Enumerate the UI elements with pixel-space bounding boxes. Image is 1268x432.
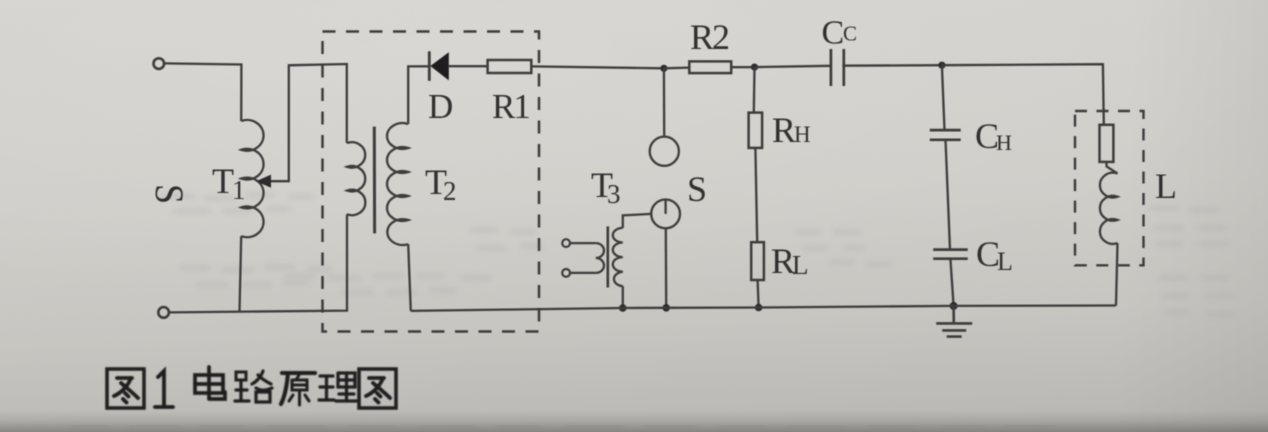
inductor L winding (1100, 173, 1118, 244)
wire: inductor L to bottom rail (1116, 243, 1118, 305)
transformer T2 core (373, 127, 376, 234)
transformer T3 secondary winding (613, 228, 623, 286)
dashed box (exciter unit) (323, 32, 540, 332)
原 (281, 373, 315, 405)
transformer T2 secondary winding (387, 123, 408, 245)
spark gap wire from node A (663, 68, 666, 136)
wire: Cc to node C (842, 64, 942, 67)
capacitor CH plates (930, 129, 961, 132)
wire: RL to bottom rail (758, 280, 759, 308)
bleedthrough row at photo bottom edge (70, 426, 1056, 428)
node A junction (660, 65, 667, 72)
spark gap lower electrode S (651, 200, 680, 229)
arrowhead of T1 tap (256, 175, 271, 188)
路 (235, 371, 272, 402)
node: S branch bottom junction (662, 304, 670, 312)
wire: T1 bottom to bottom rail (240, 236, 242, 311)
wire: resistor to inductor L (1106, 162, 1117, 174)
理 (319, 373, 357, 401)
transformer T3 input terminal 2 (562, 269, 570, 277)
diode D cathode bar (428, 51, 431, 81)
wire: diode to R1 (449, 65, 488, 67)
wire: T3 terminal 1 to primary (570, 242, 596, 244)
terminal (bottom-left) (158, 307, 169, 318)
transformer T3 core (606, 226, 609, 287)
caption: 图1 电路原理图 (hand-drawn strokes) (107, 367, 396, 408)
wire: T1 tap arrow to T2 primary top (264, 64, 347, 181)
spark gap upper electrode (650, 137, 679, 166)
bleedthrough ink from reverse page (160, 195, 1234, 314)
transformer T3 primary winding (596, 243, 604, 273)
capacitor CL plates (933, 248, 968, 251)
wire: node B to Cc (755, 66, 831, 67)
wire: CH to CL (946, 140, 951, 250)
transformer T2 primary winding (347, 142, 365, 215)
node: ground junction (950, 302, 958, 310)
resistor in L branch (1100, 125, 1114, 162)
wire: RH to RL (755, 148, 757, 242)
wire: lower electrode to bottom rail (665, 228, 668, 307)
wire: CL to ground node (950, 259, 953, 306)
wire: R1 to node A (531, 66, 664, 68)
resistor R1 (488, 60, 532, 73)
dashed box (load L) (1075, 111, 1144, 265)
node: RL bottom junction (755, 304, 763, 312)
wire: T2 secondary top to diode (408, 66, 429, 124)
wire: node C down to CH (942, 65, 945, 130)
wire: bottom-left rail to T2 primary bottom (169, 214, 347, 312)
图 (second) (359, 369, 396, 408)
resistor RL (751, 242, 764, 280)
capacitor Cc plates (830, 49, 833, 86)
terminal (top-left) (154, 58, 165, 69)
图 (107, 369, 144, 408)
bottom rail wire (411, 306, 1116, 311)
transformer T1 winding (241, 120, 263, 237)
resistor RH (749, 113, 763, 148)
wire: T2 secondary bottom to bottom rail (408, 244, 411, 311)
1 (155, 371, 173, 407)
transformer T3 input terminal 1 (562, 239, 570, 247)
wire: R2 to node B (731, 66, 754, 68)
wire: node C to L branch corner (942, 64, 1104, 125)
wire: T3 terminal 2 to primary (570, 272, 596, 274)
node: T3 bottom junction (619, 304, 627, 312)
node B junction (751, 64, 758, 71)
diode D triangle (430, 52, 449, 80)
wire: T3 secondary bottom to bottom rail (622, 286, 624, 308)
wire: T3 secondary top to spark gap (623, 214, 651, 228)
spark gap lower electrode pointer (664, 200, 666, 214)
wire: top terminal to T1 top (164, 63, 241, 121)
schematic lines (154, 49, 1118, 337)
wire: node B down to RH (753, 67, 756, 113)
ground (936, 306, 972, 337)
电 (195, 367, 225, 399)
resistor R2 (689, 61, 731, 73)
wire: node A to R2 (664, 66, 689, 69)
node C junction (938, 62, 945, 69)
